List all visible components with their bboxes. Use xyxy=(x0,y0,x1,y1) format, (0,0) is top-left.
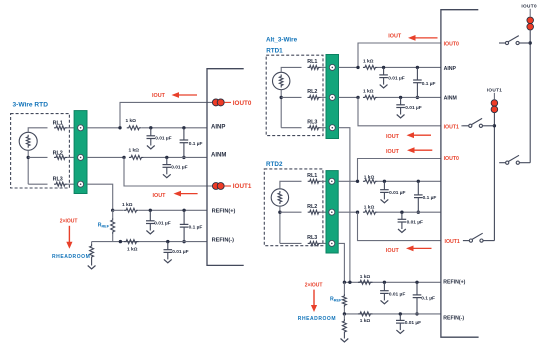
capacitor 0.01uF REFIN+ right xyxy=(383,281,386,284)
ground RHEADROOM right xyxy=(343,334,345,339)
RTD2 enclosure (dashed) xyxy=(264,169,323,246)
wire RL1 to green1-1 xyxy=(321,66,330,68)
svg-text:0.01 µF: 0.01 µF xyxy=(154,220,170,226)
svg-text:IOUT1: IOUT1 xyxy=(444,124,459,130)
RTD1 sensor element xyxy=(273,72,290,89)
capacitor 0.1uF AINP-AINM xyxy=(182,126,185,129)
3-wire RTD sensor enclosure (dashed) xyxy=(11,114,70,188)
ground RHEADROOM left xyxy=(91,259,93,266)
capacitor 0.1uF REFIN xyxy=(182,209,185,212)
arrow 2xIOUT right xyxy=(313,290,315,307)
terminal J1-2 xyxy=(78,154,84,160)
svg-text:0.1 µF: 0.1 µF xyxy=(423,195,437,201)
svg-text:0.01 µF: 0.01 µF xyxy=(388,75,404,81)
wire RREF right leads xyxy=(343,282,345,294)
svg-text:RTD2: RTD2 xyxy=(266,161,283,168)
wire RTD1 top to RL1 xyxy=(281,67,301,72)
svg-text:1 kΩ: 1 kΩ xyxy=(360,274,371,280)
resistor 1k ch1 AINM xyxy=(363,95,378,99)
switch S1 IOUT0 ch1 xyxy=(499,42,505,44)
wire ch1 AINM to pin xyxy=(378,96,442,98)
resistor RL3 xyxy=(54,182,67,186)
wire headroom right lead xyxy=(343,314,345,319)
jack IOUT1 left xyxy=(212,183,219,190)
wire terminal3 to REFIN junction xyxy=(87,184,113,210)
wire RL3 row xyxy=(28,183,47,185)
terminal J2-2 xyxy=(329,94,335,100)
capacitor 0.01uF REFIN- xyxy=(166,240,169,243)
terminal J3-3 xyxy=(329,240,335,246)
wire RL2 to green2-2 xyxy=(321,211,329,213)
terminal J3-2 xyxy=(329,209,335,215)
wire terminal1 to AINP junction xyxy=(87,127,120,129)
ADC device box left xyxy=(207,69,244,266)
node IOUT1 jack junction xyxy=(493,124,496,127)
resistor RL2 (RTD1) xyxy=(308,95,321,99)
wire green2-1 to ch2 AINP junction xyxy=(338,180,357,182)
node RTD bottom / RL2 xyxy=(27,156,30,159)
wire RL2 row xyxy=(28,156,47,158)
node REFIN+ RTD1 junction xyxy=(348,281,351,284)
capacitor 0.01uF AINP xyxy=(149,126,152,129)
RTD sensor element xyxy=(19,132,37,150)
svg-text:IOUT0: IOUT0 xyxy=(444,42,459,48)
RTD1 enclosure (dashed) xyxy=(266,55,323,135)
wire RL3 to green2-3 xyxy=(321,242,329,244)
wire green1-1 to ch1 AINP junction xyxy=(339,66,359,68)
resistor 1k AINM xyxy=(129,155,144,159)
wire ch1 AINP to pin xyxy=(378,66,442,68)
jack IOUT0 right xyxy=(527,17,534,24)
resistor 1k REFIN+ right xyxy=(358,280,373,284)
jack IOUT0 left xyxy=(212,99,219,106)
node AINM junction xyxy=(122,156,125,159)
capacitor 0.01uF REFIN+ xyxy=(149,209,152,212)
svg-text:AINM: AINM xyxy=(444,96,457,102)
jack IOUT1 right xyxy=(491,100,498,107)
capacitor 0.1uF ch1 xyxy=(416,66,419,69)
wire RTD1 bottom down xyxy=(280,90,282,128)
svg-text:RL1: RL1 xyxy=(307,59,317,65)
node REFIN- RREF junction xyxy=(343,312,346,315)
resistor 1k ch1 AINP xyxy=(363,65,378,69)
svg-text:RL3: RL3 xyxy=(53,176,63,182)
terminal J2-3 xyxy=(329,125,335,131)
svg-text:0.1 µF: 0.1 µF xyxy=(422,81,436,87)
svg-text:REFIN(-): REFIN(-) xyxy=(212,237,235,243)
wire RTD2 top to RL1 xyxy=(280,181,302,189)
wire RL2 row (RTD1) xyxy=(281,96,301,98)
wire RL1 to terminal 1 xyxy=(67,127,77,129)
wire ch2 junction up to IOUT0 row xyxy=(358,159,442,182)
RTD2 sensor element xyxy=(271,189,288,206)
wire ch2 AINM to pin xyxy=(378,211,442,213)
resistor RREF left xyxy=(111,218,115,234)
wire IOUT0 jack down to switches xyxy=(529,30,531,163)
capacitor 0.01uF AINM xyxy=(165,156,168,159)
svg-text:1 kΩ: 1 kΩ xyxy=(129,147,140,153)
terminal J1-3 xyxy=(78,181,84,187)
ADC device box right xyxy=(441,10,479,338)
svg-text:0.01 µF: 0.01 µF xyxy=(405,320,421,326)
svg-text:1 kΩ: 1 kΩ xyxy=(363,89,374,95)
wire terminal2 to AINM junction xyxy=(87,156,124,158)
svg-text:0.01 µF: 0.01 µF xyxy=(155,135,171,141)
svg-text:IOUT0: IOUT0 xyxy=(444,156,459,162)
node AINP junction xyxy=(118,126,121,129)
svg-text:1 kΩ: 1 kΩ xyxy=(364,174,375,180)
svg-text:REFIN(+): REFIN(+) xyxy=(212,208,236,214)
node REFIN(+) junction xyxy=(111,209,114,212)
svg-text:1 kΩ: 1 kΩ xyxy=(363,59,374,65)
svg-text:RHEADROOM: RHEADROOM xyxy=(52,254,90,260)
svg-text:REFIN(+): REFIN(+) xyxy=(443,280,465,286)
resistor RL3 (RTD2) xyxy=(308,241,321,245)
svg-text:0.01 µF: 0.01 µF xyxy=(407,220,423,226)
svg-text:AINP: AINP xyxy=(211,124,225,130)
wire green2-2 to ch2 AINM junction xyxy=(338,211,357,213)
svg-text:IOUT0: IOUT0 xyxy=(521,3,537,8)
node RTD2 bottom xyxy=(278,211,281,214)
svg-text:RTD1: RTD1 xyxy=(266,48,283,55)
svg-text:IOUT: IOUT xyxy=(153,193,167,199)
arrow IOUT ch1 bottom xyxy=(413,134,432,136)
node ch2 AINP junction xyxy=(356,180,359,183)
svg-text:RL2: RL2 xyxy=(307,204,317,210)
resistor 1k REFIN- xyxy=(124,240,139,244)
switch S2 IOUT1 ch1 xyxy=(461,125,464,127)
arrow IOUT ch2 top xyxy=(413,149,432,151)
terminal J2-1 xyxy=(329,64,335,70)
svg-text:2×IOUT: 2×IOUT xyxy=(60,219,78,225)
capacitor 0.1uF REFIN right xyxy=(415,281,418,284)
svg-text:AINM: AINM xyxy=(211,153,226,159)
wire 1k to AINM pin xyxy=(144,156,208,158)
wire REFIN- row xyxy=(92,241,207,243)
wire green2-3 down to REFIN+ xyxy=(338,243,344,282)
wire RL2 to terminal 2 xyxy=(67,156,77,158)
resistor RL1 (RTD1) xyxy=(308,65,321,69)
wire 1k to REFIN+ pin xyxy=(139,209,207,211)
svg-text:1 kΩ: 1 kΩ xyxy=(364,204,375,210)
svg-text:IOUT: IOUT xyxy=(152,93,166,99)
capacitor 0.01uF REFIN- right xyxy=(399,312,402,315)
resistor RHEADROOM left xyxy=(90,244,94,259)
wire RTD2 bottom down xyxy=(279,206,281,243)
node REFIN- row dot xyxy=(119,240,122,243)
wire RL3 to terminal 3 xyxy=(67,183,77,185)
wire RREF top lead xyxy=(112,210,114,218)
resistor RL1 xyxy=(54,126,67,130)
wire green1-2 to ch1 AINM junction xyxy=(339,96,359,98)
wire RL2 to green1-2 xyxy=(321,96,330,98)
node RTD1 bottom xyxy=(280,96,283,99)
node ch1 AINM junction xyxy=(356,96,359,99)
resistor 1k ch2 AINM xyxy=(363,210,378,214)
svg-text:RL1: RL1 xyxy=(53,121,63,127)
capacitor 0.01uF ch1 AINP xyxy=(382,66,385,69)
svg-text:RL3: RL3 xyxy=(307,235,317,241)
svg-text:0.01 µF: 0.01 µF xyxy=(172,249,188,255)
wire RL3 row (RTD2) xyxy=(280,242,302,244)
svg-text:0.1 µF: 0.1 µF xyxy=(189,225,203,231)
svg-text:IOUT1: IOUT1 xyxy=(487,88,503,93)
svg-text:IOUT: IOUT xyxy=(388,34,402,40)
svg-text:REFIN(-): REFIN(-) xyxy=(443,316,464,322)
svg-text:IOUT1: IOUT1 xyxy=(233,183,252,190)
svg-text:RL2: RL2 xyxy=(307,89,317,95)
capacitor 0.01uF ch2 AINM xyxy=(400,211,403,214)
node IOUT0 jack junction xyxy=(529,41,532,44)
svg-text:0.01 µF: 0.01 µF xyxy=(405,105,421,111)
arrow IOUT left-bottom xyxy=(180,193,198,195)
resistor RREF right xyxy=(342,294,346,308)
wire REFIN- row right xyxy=(344,313,441,315)
resistor 1k REFIN+ xyxy=(124,208,139,212)
resistor 1k ch2 AINP xyxy=(363,179,378,183)
svg-text:0.1 µF: 0.1 µF xyxy=(421,295,435,301)
svg-text:RL1: RL1 xyxy=(307,173,317,179)
node ch2 AINM junction xyxy=(356,211,359,214)
capacitor 0.1uF ch2 xyxy=(417,180,420,183)
svg-text:RL3: RL3 xyxy=(307,119,317,125)
svg-text:0.1 µF: 0.1 µF xyxy=(189,141,203,147)
wire AINM junction down to IOUT1 row xyxy=(124,157,213,186)
resistor 1k AINP xyxy=(127,126,142,130)
wire 1k to AINP pin xyxy=(141,127,207,129)
svg-text:3-Wire RTD: 3-Wire RTD xyxy=(13,102,49,109)
svg-text:0.01 µF: 0.01 µF xyxy=(171,164,187,170)
terminal block J1 xyxy=(74,111,87,194)
wire green1-3 down to REFIN+ xyxy=(339,128,350,283)
terminal J1-1 xyxy=(78,125,84,131)
wire RTD top to RL1 xyxy=(28,128,47,133)
svg-text:1 kΩ: 1 kΩ xyxy=(127,247,138,253)
capacitor 0.01uF ch2 AINP xyxy=(383,180,386,183)
arrow IOUT left-top xyxy=(178,94,198,96)
wire RREF to REFIN- row xyxy=(112,234,114,242)
svg-text:1 kΩ: 1 kΩ xyxy=(122,202,133,208)
svg-text:Alt_3-Wire: Alt_3-Wire xyxy=(266,37,298,44)
capacitor 0.01uF ch1 AINM xyxy=(399,96,402,99)
svg-text:1 kΩ: 1 kΩ xyxy=(360,318,371,324)
arrow 2xIOUT left xyxy=(68,226,70,244)
wire RL3 to green1-3 xyxy=(321,127,330,129)
svg-text:2×IOUT: 2×IOUT xyxy=(305,283,323,289)
resistor 1k REFIN- right xyxy=(358,312,373,316)
wire junction up to IOUT0 row xyxy=(120,102,213,127)
wire IOUT0 jack lead top xyxy=(529,9,531,17)
switch S4 IOUT1 ch2 xyxy=(463,240,469,242)
wire ch1 junction up to IOUT0 row xyxy=(358,43,441,67)
wire RL1 to green2-1 xyxy=(321,180,329,182)
svg-text:IOUT: IOUT xyxy=(386,248,400,254)
resistor RHEADROOM right xyxy=(342,319,346,334)
node REFIN+ RREF junction xyxy=(343,281,346,284)
svg-text:0.01 µF: 0.01 µF xyxy=(389,291,405,297)
wire RTD bottom down to RL3 row xyxy=(27,150,29,184)
svg-text:IOUT1: IOUT1 xyxy=(445,239,460,245)
wire IOUT1 jack lead top xyxy=(493,93,495,100)
arrow IOUT ch1 top xyxy=(414,37,438,39)
wire REFIN+ lead xyxy=(113,209,124,211)
terminal J3-1 xyxy=(329,178,335,184)
node ch1 AINP junction xyxy=(356,66,359,69)
wire IOUT1 jack down to switches xyxy=(493,113,495,241)
svg-text:IOUT0: IOUT0 xyxy=(233,100,252,107)
wire REFIN+ row right xyxy=(344,281,441,283)
wire RL2 row (RTD2) xyxy=(280,211,302,213)
terminal block J2 xyxy=(326,55,339,139)
wire ch1 AINM down to IOUT1 row xyxy=(358,97,441,125)
wire headroom lead xyxy=(91,242,93,244)
resistor RL1 (RTD2) xyxy=(308,179,321,183)
resistor RL2 xyxy=(54,155,67,159)
svg-text:AINP: AINP xyxy=(444,66,457,72)
resistor RL3 (RTD1) xyxy=(308,126,321,130)
svg-text:IOUT: IOUT xyxy=(386,149,400,155)
switch S3 IOUT0 ch2 xyxy=(499,162,505,164)
svg-text:IOUT: IOUT xyxy=(386,134,400,140)
wire ch2 AINP to pin xyxy=(378,180,442,182)
wire RL3 row (RTD1) xyxy=(281,127,301,129)
svg-text:RHEADROOM: RHEADROOM xyxy=(298,316,336,322)
wire ch2 AINM down to IOUT1 row xyxy=(358,212,442,240)
resistor RL2 (RTD2) xyxy=(308,210,321,214)
arrow IOUT ch2 bottom xyxy=(412,247,432,249)
svg-text:0.01 µF: 0.01 µF xyxy=(389,190,405,196)
svg-text:1 kΩ: 1 kΩ xyxy=(126,118,137,124)
svg-text:RL2: RL2 xyxy=(53,150,63,156)
terminal block J3 xyxy=(326,171,338,253)
